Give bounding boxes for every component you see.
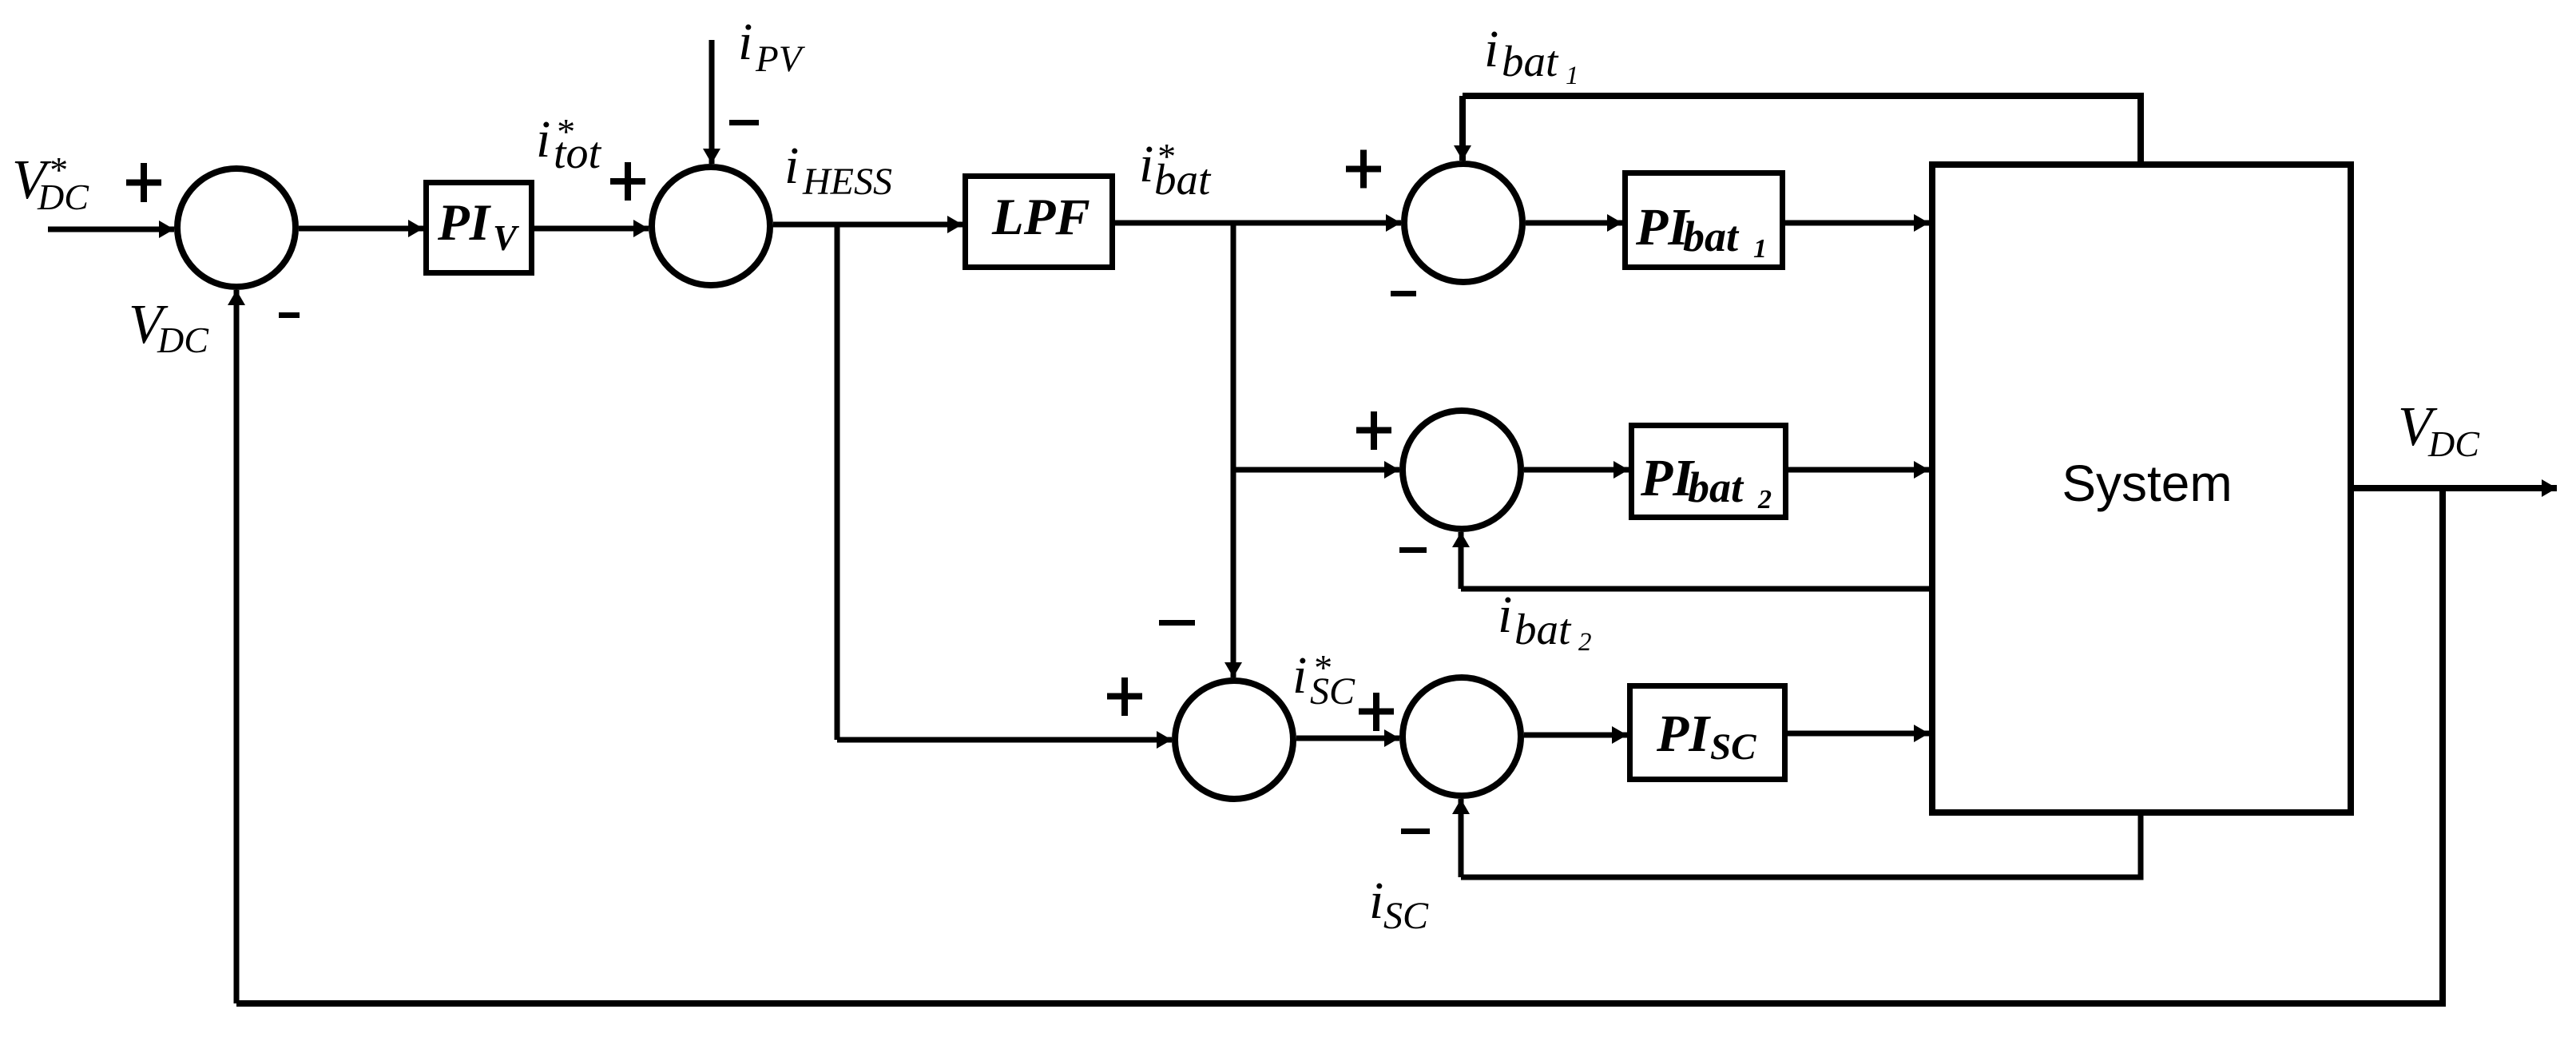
svg-text:tot: tot (554, 129, 602, 178)
wire: S5 to PIsc (1524, 733, 1627, 738)
wire: ibat1 feedback from System top to S3 (1463, 96, 2141, 165)
minus sign at SM bottom (1399, 547, 1427, 553)
wire: PIbat1 to System (1785, 221, 1929, 226)
svg-text:PI: PI (1656, 705, 1711, 763)
svg-text:i: i (536, 110, 550, 169)
svg-text:System: System (2062, 455, 2232, 512)
wire: i*bat branch to SM (middle summing junction) (1233, 467, 1399, 473)
block PIbat1 (1625, 173, 1783, 268)
summing junction S1 (177, 169, 296, 287)
plus sign at S4 left (1107, 677, 1142, 716)
block PIsc (1630, 686, 1785, 780)
wire: VDC output from System (2354, 485, 2557, 491)
wire: S2 to LPF (773, 222, 963, 228)
node ibat2 label (1498, 586, 1592, 657)
svg-text:i: i (784, 137, 799, 195)
node iHESS label (784, 137, 892, 203)
block PIv (427, 183, 532, 273)
minus sign at S2 top (729, 120, 759, 125)
wire: S4 to S5 (1296, 736, 1399, 741)
svg-text:2: 2 (1578, 628, 1592, 657)
wire: S1 to PIv (299, 226, 423, 232)
node VDC output label (2398, 396, 2480, 464)
svg-text:i: i (1498, 586, 1512, 644)
plus sign at S3 left (1346, 150, 1381, 189)
svg-text:HESS: HESS (802, 161, 892, 203)
svg-text:bat: bat (1154, 155, 1212, 204)
node iSC label (1369, 872, 1429, 937)
svg-text:LPF: LPF (991, 189, 1090, 246)
minus sign at S1 bottom (279, 312, 300, 318)
node ibat1 label (1484, 20, 1579, 90)
svg-text:PI: PI (437, 194, 492, 252)
svg-text:i: i (1139, 135, 1153, 193)
svg-text:bat: bat (1514, 605, 1572, 654)
block PIbat2 (1632, 426, 1786, 518)
node iPV label (738, 13, 806, 80)
wire: VDC* input into summing junction S1 (48, 227, 174, 232)
wire: LPF to S3 with junction at i*bat branch (1115, 221, 1401, 226)
wire: ibat2 feedback from System left edge to SM bottom (1461, 586, 1929, 592)
wire: iHESS branch vertical down (835, 224, 840, 740)
wire: iSC feedback from System bottom to S5 (1461, 809, 2141, 877)
minus sign at S5 bottom (1401, 828, 1430, 834)
svg-text:bat: bat (1683, 213, 1740, 260)
wire: PIv to S2 (534, 226, 649, 232)
node i*tot label (536, 110, 602, 178)
svg-text:SC: SC (1310, 670, 1355, 713)
node i*SC label (1292, 646, 1355, 713)
wire: i*bat branch vertical down into S4 (1231, 223, 1236, 677)
wire: PIbat2 to System (1788, 467, 1929, 473)
block System (1932, 165, 2351, 813)
plus sign at S2 left (610, 162, 645, 201)
svg-text:DC: DC (157, 320, 209, 360)
summing junction S4 (1175, 681, 1293, 799)
svg-text:bat: bat (1688, 463, 1744, 511)
wire: S3 to PIbat1 (1526, 221, 1622, 226)
svg-text:DC: DC (37, 177, 89, 217)
svg-text:i: i (1484, 20, 1498, 78)
plus sign at SM left (1356, 411, 1391, 450)
block LPF (966, 177, 1113, 268)
minus sign at S3 bottom (1391, 291, 1416, 296)
svg-text:PI: PI (1640, 449, 1695, 507)
svg-text:1: 1 (1566, 62, 1579, 90)
summing junction S2 (652, 167, 770, 285)
svg-text:i: i (1369, 872, 1383, 930)
svg-text:DC: DC (2427, 423, 2480, 464)
svg-text:1: 1 (1753, 234, 1767, 264)
plus sign at S1 (126, 163, 161, 202)
minus sign above S4 (1159, 620, 1195, 626)
node VDC* label (12, 149, 89, 217)
svg-text:SC: SC (1383, 895, 1429, 937)
plus sign at S5 left (1359, 693, 1394, 731)
svg-text:V: V (493, 218, 520, 258)
wire: iPV input into S2 top (709, 40, 715, 164)
summing junction SM (1403, 411, 1521, 529)
svg-text:2: 2 (1757, 485, 1772, 515)
node i*bat label (1139, 135, 1212, 204)
svg-text:bat: bat (1502, 37, 1559, 85)
wire: SM to PIbat2 (1524, 467, 1629, 473)
summing junction S3 (1404, 164, 1522, 282)
wire: PIsc to System (1788, 731, 1929, 737)
summing junction S5 (1403, 677, 1521, 796)
node VDC label (feedback into S1) (129, 294, 209, 360)
svg-text:PV: PV (755, 38, 806, 80)
wire: VDC feedback loop to S1 (236, 488, 2443, 1003)
svg-text:PI: PI (1635, 198, 1690, 256)
wire: iHESS branch into S4 (837, 737, 1172, 743)
svg-text:i: i (1292, 646, 1307, 705)
svg-text:i: i (738, 13, 752, 71)
svg-text:SC: SC (1710, 726, 1756, 768)
